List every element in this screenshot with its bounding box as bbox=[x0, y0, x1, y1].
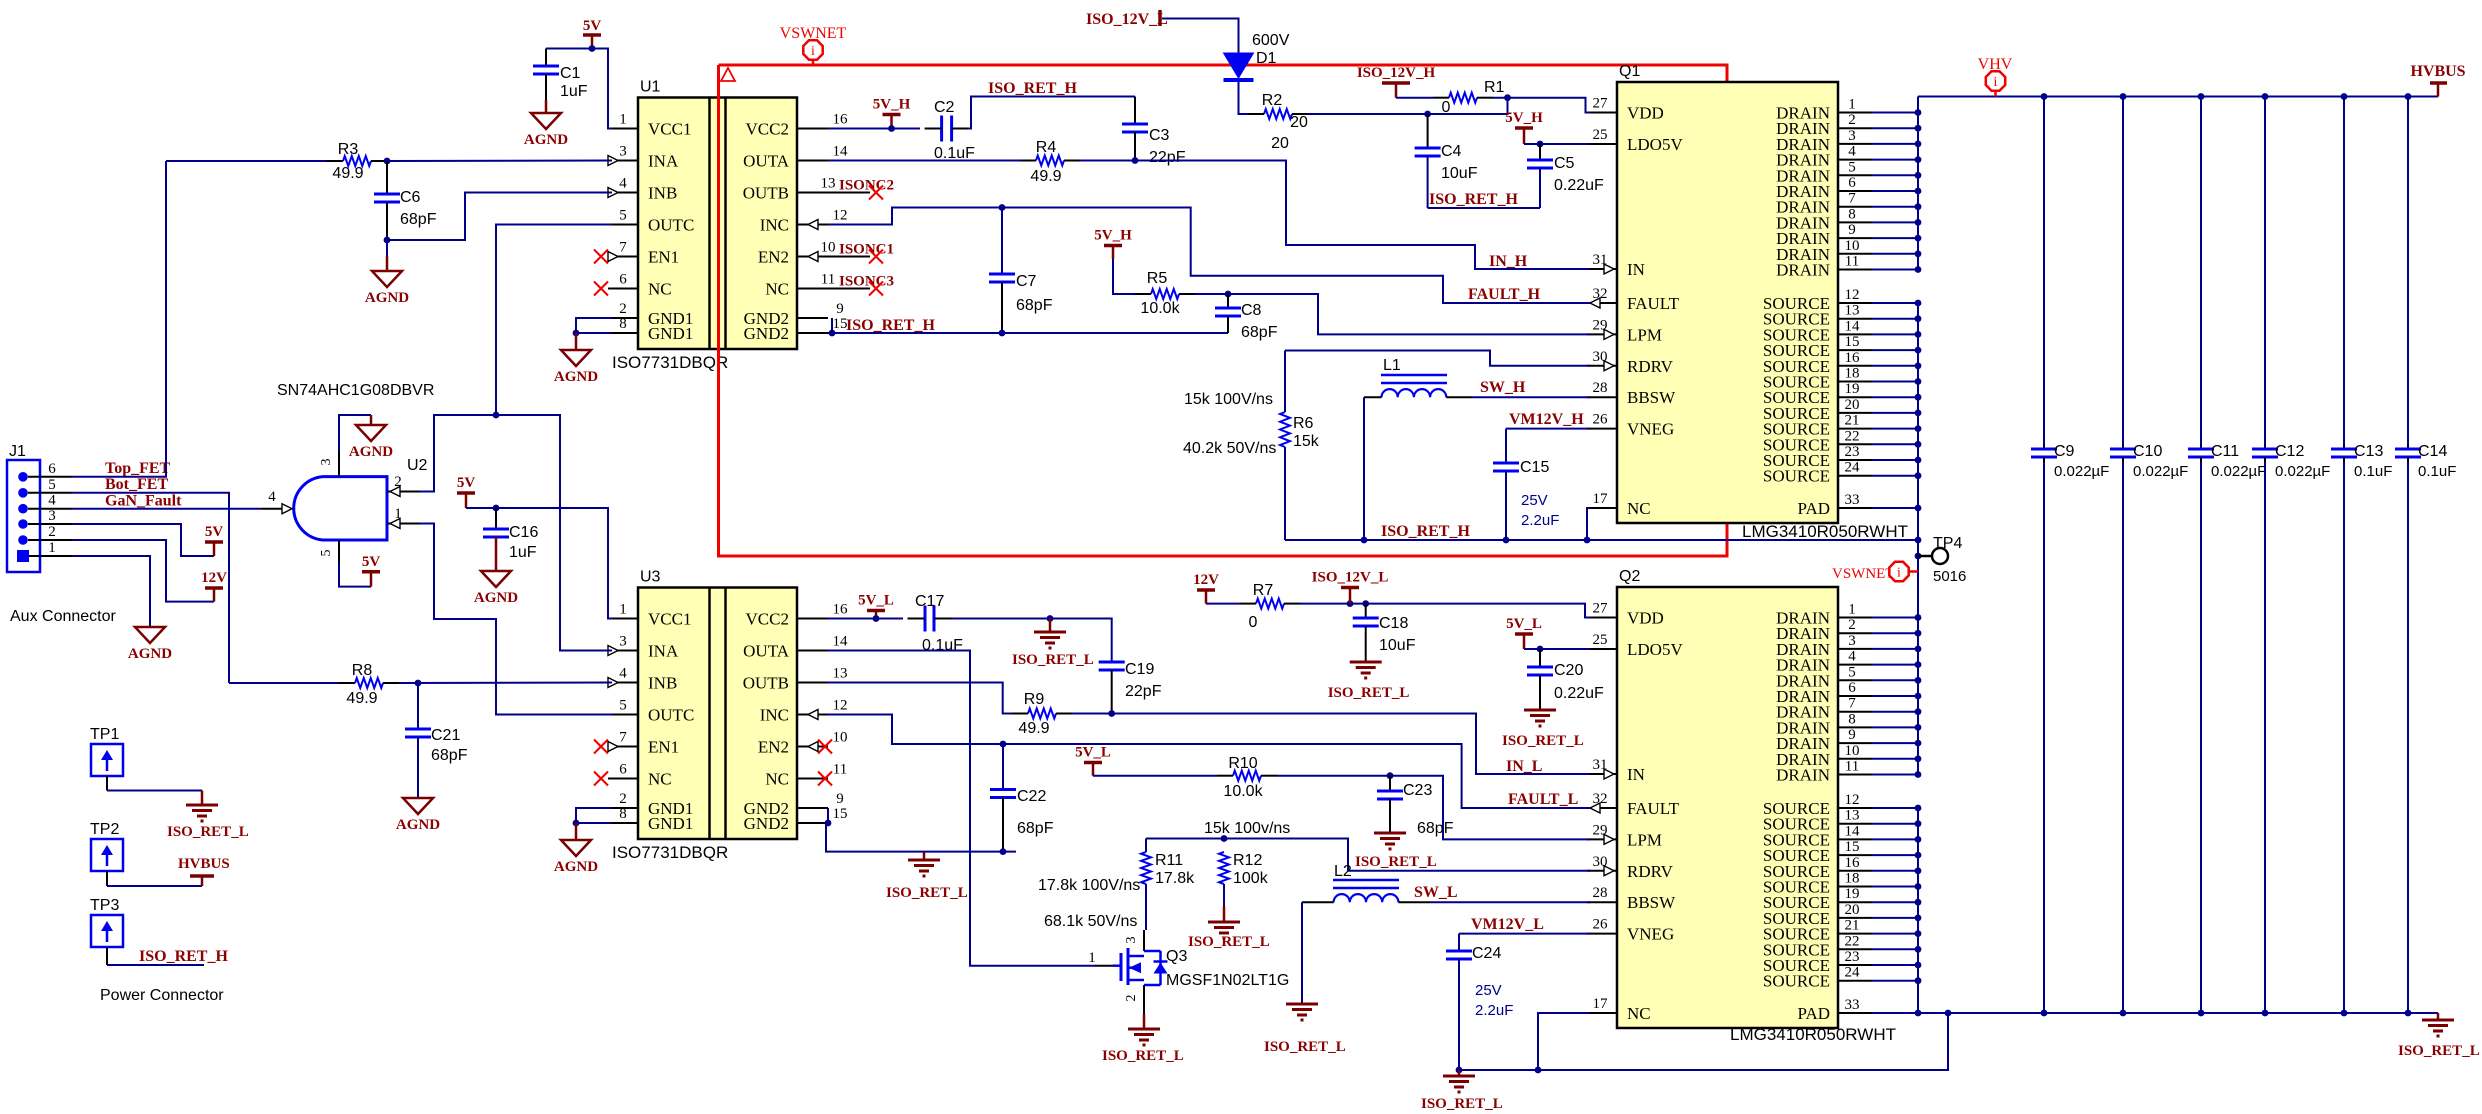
svg-text:2: 2 bbox=[619, 791, 627, 807]
svg-text:20: 20 bbox=[1271, 135, 1289, 152]
svg-text:ISO_12V_H: ISO_12V_H bbox=[1357, 65, 1436, 81]
power port ISO_12V_L R7 bbox=[1349, 588, 1352, 604]
wire R3 to INA bbox=[387, 160, 612, 163]
pin 2 DRAIN bbox=[1838, 127, 1872, 129]
pin 12 SOURCE bbox=[1838, 807, 1872, 809]
svg-text:40.2k 50V/ns: 40.2k 50V/ns bbox=[1183, 440, 1276, 457]
svg-text:C2: C2 bbox=[934, 99, 955, 116]
svg-text:2: 2 bbox=[48, 524, 56, 540]
svg-text:1: 1 bbox=[48, 540, 56, 556]
svg-text:8: 8 bbox=[619, 316, 627, 332]
svg-text:16: 16 bbox=[833, 602, 849, 618]
svg-text:4: 4 bbox=[619, 666, 627, 682]
capacitor C3 22pF bbox=[1134, 97, 1136, 125]
svg-text:OUTA: OUTA bbox=[743, 642, 790, 661]
wire INC to FAULT_H bbox=[828, 208, 1590, 304]
pin 29 LPM bbox=[1587, 838, 1617, 840]
ground AGND U2 bbox=[370, 415, 373, 425]
pin 16 SOURCE bbox=[1838, 870, 1872, 872]
svg-text:11: 11 bbox=[821, 272, 835, 288]
svg-text:ISO7731DBQR: ISO7731DBQR bbox=[612, 843, 728, 862]
pin 12 INC bbox=[798, 224, 828, 226]
svg-text:18: 18 bbox=[1845, 871, 1860, 887]
pin 12 SOURCE bbox=[1838, 302, 1872, 304]
pin 5 OUTC bbox=[608, 224, 638, 226]
svg-text:18: 18 bbox=[1845, 366, 1860, 382]
pin 6 DRAIN bbox=[1838, 695, 1872, 697]
wire U1 OUTC to U3 INA bbox=[496, 415, 612, 651]
svg-text:5V: 5V bbox=[205, 524, 224, 540]
svg-text:PAD: PAD bbox=[1798, 499, 1830, 518]
svg-text:25V: 25V bbox=[1475, 982, 1502, 999]
svg-text:C14: C14 bbox=[2418, 443, 2447, 460]
wire OUTC U1 down to U2/U3 bbox=[496, 225, 612, 416]
svg-text:Aux Connector: Aux Connector bbox=[10, 608, 117, 625]
svg-text:0.1uF: 0.1uF bbox=[934, 145, 975, 162]
pin 8 DRAIN bbox=[1838, 726, 1872, 728]
svg-text:RDRV: RDRV bbox=[1627, 862, 1674, 881]
wire OUTB U3 to R9 bbox=[828, 683, 1012, 714]
pin 9 DRAIN bbox=[1838, 742, 1872, 744]
svg-text:3: 3 bbox=[1124, 937, 1139, 944]
wire C6 to INB bbox=[387, 193, 612, 241]
svg-text:VCC1: VCC1 bbox=[648, 120, 691, 139]
svg-text:LMG3410R050RWHT: LMG3410R050RWHT bbox=[1730, 1025, 1896, 1044]
capacitor C14 0.1uF bbox=[2405, 93, 2412, 100]
svg-text:1: 1 bbox=[619, 602, 627, 618]
svg-text:17.8k: 17.8k bbox=[1155, 870, 1195, 887]
svg-text:12V: 12V bbox=[201, 570, 227, 586]
svg-text:i: i bbox=[1994, 75, 1998, 90]
svg-text:C1: C1 bbox=[560, 65, 581, 82]
svg-text:ISO_RET_H: ISO_RET_H bbox=[988, 80, 1077, 97]
svg-text:C16: C16 bbox=[509, 524, 538, 541]
wire TP2 to HVBUS bbox=[107, 885, 202, 887]
capacitor C11 0.022µF bbox=[2198, 93, 2205, 100]
svg-text:R12: R12 bbox=[1233, 852, 1262, 869]
svg-text:23: 23 bbox=[1845, 949, 1860, 965]
svg-text:10: 10 bbox=[1845, 743, 1860, 759]
pin 5 DRAIN bbox=[1838, 174, 1872, 176]
pin 1 DRAIN bbox=[1838, 112, 1872, 114]
power port 12V R7 bbox=[1205, 590, 1208, 604]
pin 22 SOURCE bbox=[1838, 948, 1872, 950]
svg-text:1: 1 bbox=[619, 112, 627, 128]
pin 14 OUTA bbox=[798, 650, 828, 652]
resistor R10 10.0k bbox=[1093, 775, 1217, 777]
pin 17 NC bbox=[1587, 507, 1617, 509]
pin 9 GND2 bbox=[798, 317, 828, 319]
svg-text:14: 14 bbox=[1845, 823, 1861, 839]
svg-text:13: 13 bbox=[1845, 808, 1860, 824]
capacitor C10 0.022µF bbox=[2120, 93, 2127, 100]
svg-text:2.2uF: 2.2uF bbox=[1521, 512, 1559, 529]
svg-text:ISO_RET_H: ISO_RET_H bbox=[846, 317, 935, 334]
wire VCC2 U3 row bbox=[828, 618, 903, 620]
pin 4 DRAIN bbox=[1838, 664, 1872, 666]
wire Q1 drain bus bbox=[1917, 97, 1919, 270]
svg-text:TP2: TP2 bbox=[90, 821, 119, 838]
svg-text:19: 19 bbox=[1845, 886, 1860, 902]
svg-text:3: 3 bbox=[319, 459, 334, 466]
svg-text:ISO_RET_L: ISO_RET_L bbox=[167, 824, 249, 840]
ground AGND U3 bbox=[575, 823, 578, 840]
pin 17 NC bbox=[1587, 1012, 1617, 1014]
wire R7 to VDD Q2 bbox=[1300, 604, 1590, 618]
pin 31 IN bbox=[1587, 268, 1617, 270]
pin 13 OUTB bbox=[798, 192, 828, 194]
svg-text:IN: IN bbox=[1627, 765, 1645, 784]
pin 13 SOURCE bbox=[1838, 318, 1872, 320]
pin 24 SOURCE bbox=[1838, 980, 1872, 982]
pin 7 EN1 bbox=[608, 746, 638, 748]
svg-text:FAULT_H: FAULT_H bbox=[1468, 286, 1541, 303]
svg-text:C12: C12 bbox=[2275, 443, 2304, 460]
pin 1 VCC1 bbox=[608, 128, 638, 130]
svg-text:12V: 12V bbox=[1193, 572, 1219, 588]
svg-text:15k 100V/ns: 15k 100V/ns bbox=[1184, 391, 1273, 408]
ground ISO_RET_L TP1 bbox=[201, 791, 204, 806]
pin 22 SOURCE bbox=[1838, 443, 1872, 445]
svg-text:68pF: 68pF bbox=[1017, 820, 1054, 837]
svg-text:C3: C3 bbox=[1149, 127, 1170, 144]
wire ISO_RET_H C4 C5 bbox=[1428, 207, 1540, 209]
pin 10 DRAIN bbox=[1838, 758, 1872, 760]
svg-text:GaN_Fault: GaN_Fault bbox=[105, 493, 182, 510]
pin 15 SOURCE bbox=[1838, 854, 1872, 856]
svg-text:AGND: AGND bbox=[349, 444, 393, 460]
svg-text:4: 4 bbox=[48, 493, 56, 509]
capacitor C4 10uF bbox=[1427, 114, 1429, 148]
svg-text:VCC1: VCC1 bbox=[648, 610, 691, 629]
svg-text:49.9: 49.9 bbox=[332, 165, 363, 182]
pin 1 VCC1 bbox=[608, 618, 638, 620]
power port HVBUS TP2 bbox=[201, 876, 204, 886]
svg-text:14: 14 bbox=[833, 634, 849, 650]
svg-text:5V_L: 5V_L bbox=[1506, 616, 1542, 632]
svg-text:U1: U1 bbox=[640, 79, 661, 96]
svg-text:2: 2 bbox=[1124, 995, 1139, 1002]
svg-text:17.8k 100V/ns: 17.8k 100V/ns bbox=[1038, 877, 1140, 894]
svg-text:C21: C21 bbox=[431, 727, 460, 744]
capacitor C9 0.022µF bbox=[2041, 93, 2048, 100]
power port 5V C16 bbox=[465, 493, 468, 508]
capacitor C24 2.2uF bbox=[1458, 934, 1460, 951]
svg-text:NC: NC bbox=[648, 770, 672, 789]
svg-text:IN: IN bbox=[1627, 260, 1645, 279]
svg-text:AGND: AGND bbox=[396, 817, 440, 833]
svg-text:i: i bbox=[1897, 566, 1901, 581]
wire Q2 source bus bbox=[1917, 808, 1919, 1013]
capacitor C12 0.022µF bbox=[2262, 93, 2269, 100]
svg-text:i: i bbox=[811, 44, 815, 59]
svg-text:INA: INA bbox=[648, 152, 679, 171]
svg-text:EN1: EN1 bbox=[648, 738, 679, 757]
svg-text:9: 9 bbox=[1848, 222, 1856, 238]
svg-text:VM12V_H: VM12V_H bbox=[1509, 411, 1584, 428]
pin 23 SOURCE bbox=[1838, 964, 1872, 966]
pin 26 VNEG bbox=[1587, 933, 1617, 935]
pin 11 NC bbox=[798, 288, 828, 290]
pin 2 GND1 bbox=[608, 317, 638, 319]
capacitor C7 68pF bbox=[1001, 208, 1003, 275]
wire ISO_RET_L rail Q2 bbox=[1459, 1013, 1948, 1070]
svg-text:13: 13 bbox=[1845, 303, 1860, 319]
svg-text:21: 21 bbox=[1845, 918, 1860, 934]
svg-text:13: 13 bbox=[833, 666, 848, 682]
svg-text:8: 8 bbox=[1848, 711, 1856, 727]
svg-text:ISONC3: ISONC3 bbox=[839, 274, 894, 290]
power port 5V_H VCC2 bbox=[890, 115, 893, 129]
wire ISO_RET_H rail Q1 bbox=[1285, 539, 1918, 541]
svg-text:GND1: GND1 bbox=[648, 324, 693, 343]
svg-text:VM12V_L: VM12V_L bbox=[1471, 916, 1544, 933]
svg-text:SN74AHC1G08DBVR: SN74AHC1G08DBVR bbox=[277, 382, 434, 399]
svg-text:NC: NC bbox=[1627, 1004, 1651, 1023]
isolation marker triangle bbox=[721, 68, 735, 81]
svg-text:RDRV: RDRV bbox=[1627, 357, 1674, 376]
svg-text:C24: C24 bbox=[1472, 945, 1501, 962]
wire HV top rail bbox=[1918, 96, 2438, 98]
wire NC17 Q2 bbox=[1538, 1013, 1590, 1070]
pin 3 U2 vcc bbox=[338, 452, 340, 477]
svg-text:21: 21 bbox=[1845, 413, 1860, 429]
pin 28 BBSW bbox=[1587, 901, 1617, 903]
svg-text:28: 28 bbox=[1593, 380, 1608, 396]
svg-text:10: 10 bbox=[833, 730, 848, 746]
wire switch-node bus VSWNET bbox=[1917, 303, 1919, 775]
ground ISO_RET_L Q3 bbox=[1143, 1014, 1146, 1029]
capacitor C13 0.1uF bbox=[2341, 93, 2348, 100]
svg-text:AGND: AGND bbox=[128, 646, 172, 662]
svg-text:68pF: 68pF bbox=[1016, 297, 1053, 314]
pin 25 LDO5V bbox=[1587, 143, 1617, 145]
power port 5V_L VCC2 U3 bbox=[875, 611, 878, 619]
svg-text:Q2: Q2 bbox=[1619, 568, 1640, 585]
svg-text:HVBUS: HVBUS bbox=[178, 856, 230, 872]
svg-text:0.022µF: 0.022µF bbox=[2211, 463, 2266, 480]
pin 1 DRAIN bbox=[1838, 617, 1872, 619]
pin 4 DRAIN bbox=[1838, 159, 1872, 161]
svg-text:ISO_RET_L: ISO_RET_L bbox=[1188, 934, 1270, 950]
capacitor C22 68pF bbox=[1002, 744, 1004, 790]
svg-text:C17: C17 bbox=[915, 593, 944, 610]
power port 5V_H R5 bbox=[1112, 246, 1115, 260]
isolation boundary box bbox=[719, 65, 1728, 556]
capacitor C5 0.22uF bbox=[1539, 144, 1541, 160]
svg-text:Power Connector: Power Connector bbox=[100, 987, 224, 1004]
svg-text:26: 26 bbox=[1593, 917, 1609, 933]
wire R5 to LPM bbox=[1195, 294, 1590, 334]
svg-text:BBSW: BBSW bbox=[1627, 893, 1676, 912]
svg-text:DRAIN: DRAIN bbox=[1776, 766, 1830, 785]
svg-text:IN_H: IN_H bbox=[1489, 253, 1528, 270]
svg-text:AGND: AGND bbox=[524, 132, 568, 148]
svg-text:VSWNET: VSWNET bbox=[1832, 566, 1895, 582]
pin 5 OUTC bbox=[608, 714, 638, 716]
svg-text:2: 2 bbox=[394, 474, 402, 490]
wire U3 GND2 to ISO_RET_L bbox=[827, 808, 829, 823]
resistor R12 100k bbox=[1219, 852, 1229, 884]
wire U1 GND1 to AGND bbox=[576, 318, 612, 333]
pin 21 SOURCE bbox=[1838, 428, 1872, 430]
pin 9 GND2 bbox=[798, 807, 828, 809]
ground ISO_RET_L R12 bbox=[1223, 906, 1226, 922]
svg-text:26: 26 bbox=[1593, 412, 1609, 428]
svg-text:10.0k: 10.0k bbox=[1223, 783, 1263, 800]
svg-text:4: 4 bbox=[619, 176, 627, 192]
power port 5V_L R10 bbox=[1092, 763, 1095, 776]
svg-text:PAD: PAD bbox=[1798, 1004, 1830, 1023]
svg-text:C5: C5 bbox=[1554, 155, 1575, 172]
svg-text:2: 2 bbox=[1848, 112, 1856, 128]
ground AGND C1 bbox=[545, 100, 548, 113]
resistor R1 0 bbox=[1396, 97, 1433, 99]
svg-text:Q3: Q3 bbox=[1166, 948, 1187, 965]
ground AGND C21 bbox=[403, 798, 433, 814]
svg-text:U2: U2 bbox=[407, 457, 428, 474]
svg-text:OUTC: OUTC bbox=[648, 706, 694, 725]
svg-text:15k 100v/ns: 15k 100v/ns bbox=[1204, 820, 1290, 837]
pin 20 SOURCE bbox=[1838, 412, 1872, 414]
svg-text:ISONC2: ISONC2 bbox=[839, 178, 894, 194]
connector J1 bbox=[7, 460, 40, 572]
capacitor C20 0.22uF bbox=[1539, 649, 1541, 667]
pin 13 SOURCE bbox=[1838, 823, 1872, 825]
svg-text:16: 16 bbox=[1845, 350, 1861, 366]
capacitor C6 68pF bbox=[386, 161, 388, 194]
wire U2 pin1 to U3 OUTC bbox=[420, 524, 612, 715]
pin 11 NC bbox=[798, 778, 828, 780]
pin 19 SOURCE bbox=[1838, 901, 1872, 903]
wire SW_L to BBSW Q2 bbox=[1430, 901, 1590, 903]
svg-text:C9: C9 bbox=[2054, 443, 2075, 460]
wire U2 pin2 from U1 OUTC bbox=[420, 415, 496, 492]
pin 6 DRAIN bbox=[1838, 190, 1872, 192]
svg-text:EN2: EN2 bbox=[758, 738, 789, 757]
svg-text:5: 5 bbox=[319, 550, 334, 557]
svg-text:68pF: 68pF bbox=[1417, 820, 1454, 837]
ground AGND U1 bbox=[575, 333, 578, 350]
svg-text:9: 9 bbox=[1848, 727, 1856, 743]
pin 11 DRAIN bbox=[1838, 774, 1872, 776]
svg-text:1uF: 1uF bbox=[560, 83, 588, 100]
svg-text:INA: INA bbox=[648, 642, 679, 661]
svg-text:13: 13 bbox=[821, 176, 836, 192]
svg-text:IN_L: IN_L bbox=[1506, 758, 1542, 775]
pin 5 U2 gnd bbox=[338, 540, 340, 563]
resistor R9 49.9 bbox=[1028, 709, 1056, 719]
svg-text:1uF: 1uF bbox=[509, 544, 537, 561]
svg-text:1: 1 bbox=[1088, 950, 1096, 966]
pin 27 VDD bbox=[1587, 112, 1617, 114]
transistor Q2 LMG3410R050RWHT body bbox=[1617, 587, 1838, 1028]
svg-text:15: 15 bbox=[1845, 839, 1860, 855]
pin 6 NC bbox=[608, 778, 638, 780]
pin 7 EN1 bbox=[608, 256, 638, 258]
wire J1 pin1 to AGND bbox=[72, 556, 150, 627]
wire C2 to ISO_RET_H jog bbox=[969, 97, 1135, 129]
wire INC U3 to FAULT_L bbox=[828, 715, 1590, 809]
pin 12 INC bbox=[798, 714, 828, 716]
svg-text:ISO_RET_L: ISO_RET_L bbox=[1012, 652, 1094, 668]
svg-text:4: 4 bbox=[1848, 649, 1856, 665]
svg-text:R2: R2 bbox=[1262, 92, 1283, 109]
pin 33 PAD bbox=[1838, 507, 1872, 509]
svg-text:LPM: LPM bbox=[1627, 830, 1662, 849]
svg-text:0.22uF: 0.22uF bbox=[1554, 177, 1604, 194]
svg-text:INB: INB bbox=[648, 674, 677, 693]
svg-text:20: 20 bbox=[1845, 397, 1860, 413]
svg-text:VCC2: VCC2 bbox=[746, 610, 789, 629]
resistor R2 20 bbox=[1264, 109, 1292, 119]
svg-text:5: 5 bbox=[619, 208, 627, 224]
resistor R4 49.9 bbox=[828, 160, 1020, 162]
svg-text:12: 12 bbox=[1845, 792, 1860, 808]
svg-text:5: 5 bbox=[48, 477, 56, 493]
svg-text:5016: 5016 bbox=[1933, 568, 1966, 585]
svg-text:ISO_RET_H: ISO_RET_H bbox=[1381, 523, 1470, 540]
svg-text:R8: R8 bbox=[352, 662, 373, 679]
svg-text:SW_L: SW_L bbox=[1414, 884, 1458, 901]
capacitor C21 68pF bbox=[417, 683, 419, 729]
ground AGND C16 bbox=[481, 571, 511, 587]
svg-text:R1: R1 bbox=[1484, 79, 1505, 96]
wire U3 OUTA to Q3 gate bbox=[828, 651, 1096, 966]
svg-text:7: 7 bbox=[1848, 191, 1856, 207]
svg-text:NC: NC bbox=[1627, 499, 1651, 518]
svg-text:5V_H: 5V_H bbox=[1094, 228, 1132, 244]
svg-text:MGSF1N02LT1G: MGSF1N02LT1G bbox=[1166, 972, 1289, 989]
power port ISO_12V_H bbox=[1395, 83, 1398, 98]
ground ISO_RET_L C20 bbox=[1524, 709, 1556, 712]
pin 15 GND2 bbox=[798, 332, 828, 334]
pin 8 GND1 bbox=[608, 822, 638, 824]
ground ISO_RET_L bottom right bbox=[2437, 1013, 2440, 1020]
ground ISO_RET_L C17 bbox=[1049, 619, 1052, 633]
ground AGND J1 bbox=[135, 627, 165, 643]
svg-text:C10: C10 bbox=[2133, 443, 2162, 460]
svg-text:7: 7 bbox=[1848, 696, 1856, 712]
svg-text:3: 3 bbox=[1848, 128, 1856, 144]
pin 4 INB bbox=[608, 682, 638, 684]
wire R2 to VDD node bbox=[1308, 98, 1508, 114]
svg-text:Top_FET: Top_FET bbox=[105, 460, 171, 477]
ground AGND C6 bbox=[386, 240, 388, 256]
wire L1 to rail bbox=[1363, 397, 1365, 540]
svg-text:16: 16 bbox=[1845, 855, 1861, 871]
pin 26 VNEG bbox=[1587, 428, 1617, 430]
svg-text:R10: R10 bbox=[1228, 755, 1257, 772]
svg-text:ISO_RET_L: ISO_RET_L bbox=[1355, 854, 1437, 870]
pin 1 U2 input bbox=[387, 523, 420, 525]
svg-text:ISO_RET_L: ISO_RET_L bbox=[1264, 1039, 1346, 1055]
svg-text:8: 8 bbox=[619, 806, 627, 822]
svg-text:49.9: 49.9 bbox=[1030, 168, 1061, 185]
svg-text:C4: C4 bbox=[1441, 143, 1462, 160]
svg-text:5V: 5V bbox=[362, 554, 381, 570]
svg-text:ISO_RET_L: ISO_RET_L bbox=[886, 885, 968, 901]
svg-text:68pF: 68pF bbox=[431, 747, 468, 764]
power port 5V_L LDO5V Q2 bbox=[1523, 634, 1526, 649]
pin 16 VCC2 bbox=[798, 128, 828, 130]
resistor R5 10.0k bbox=[1113, 259, 1135, 294]
svg-text:ISO_RET_L: ISO_RET_L bbox=[1421, 1096, 1503, 1112]
svg-text:R11: R11 bbox=[1155, 852, 1183, 869]
svg-text:20: 20 bbox=[1845, 902, 1860, 918]
pin 14 SOURCE bbox=[1838, 333, 1872, 335]
svg-text:2: 2 bbox=[619, 301, 627, 317]
